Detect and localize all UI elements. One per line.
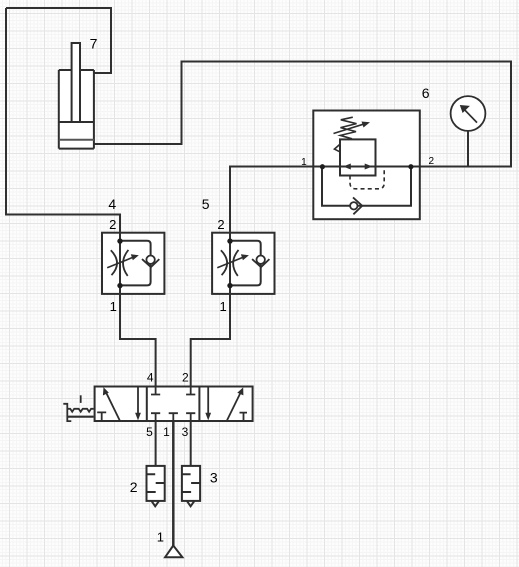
5/3 right position: blocked port T (240, 413, 248, 421)
junction node at regulator port 1 side (320, 164, 325, 169)
silencer U2 (147, 466, 165, 506)
5/3 left position: diagonal flow arrow (103, 387, 120, 420)
5/3 centre position port stub 1 (169, 413, 178, 421)
wire: left frame down to flow valve 4 port 2, through valve 4 to 5/3 valve port 4 (6, 8, 156, 387)
valve 4 adjustment arrow (107, 254, 139, 268)
svg-text:2: 2 (429, 156, 435, 167)
wire: cylinder 7 bottom port right and up, along top to right frame, down to regulator port 2 (94, 62, 511, 167)
svg-text:1: 1 (157, 530, 164, 545)
wire: cylinder 7 top port to top frame corner (6, 8, 111, 73)
wire: regulator port 1 left to flow valve 5 port 2, through valve 5 to 5/3 valve port 2 (191, 167, 322, 388)
svg-text:2: 2 (182, 371, 189, 385)
svg-text:3: 3 (210, 469, 218, 485)
regulator adjustment arrow (334, 122, 371, 134)
compressed-air source U1 (165, 546, 182, 558)
svg-text:5: 5 (146, 425, 153, 439)
pressure gauge (451, 96, 486, 131)
wire: 5/3 valve port 5 down to silencer 2 (155, 421, 157, 466)
regulator vent triangle (334, 144, 339, 151)
svg-text:3: 3 (182, 425, 189, 439)
junction node valve 4 bottom (117, 283, 122, 288)
5/3 valve detent with pin (63, 395, 93, 421)
svg-text:4: 4 (108, 196, 116, 212)
svg-text:1: 1 (301, 157, 307, 168)
wire: 5/3 valve port 1 down to compressed-air source 1 (172, 421, 175, 546)
5/3 right position: down flow arrow (205, 387, 211, 420)
svg-text:6: 6 (422, 85, 430, 101)
junction node at regulator port 2 side (408, 164, 413, 169)
regulator adjustment spring (340, 117, 356, 139)
5/3 right position: diagonal flow arrow (227, 387, 243, 420)
svg-text:2: 2 (217, 217, 224, 232)
one-way flow control valve U4 (102, 232, 164, 294)
regulator pilot line (dashed) (350, 169, 384, 189)
regulator check valve (350, 197, 362, 214)
regulator bypass line (322, 167, 411, 206)
svg-text:1: 1 (219, 299, 226, 314)
pressure regulator U6 (enclosure box) (313, 111, 420, 220)
valve 5 adjustment arrow (217, 254, 249, 268)
cylinder U7 (single-acting cylinder, rod up) (59, 43, 94, 149)
svg-text:1: 1 (163, 425, 170, 439)
junction node valve 4 top (117, 238, 122, 243)
junction node valve 5 bottom (227, 283, 232, 288)
5/3 centre position port stub 2 (186, 387, 195, 395)
one-way flow control valve U5 (212, 232, 274, 294)
svg-text:7: 7 (90, 35, 98, 51)
svg-text:1: 1 (110, 299, 117, 314)
svg-text:2: 2 (130, 479, 138, 495)
5/3 left position: down flow arrow (135, 387, 141, 420)
5/3 left position: blocked port T (97, 412, 106, 421)
5/3 centre position port stub 5 (151, 413, 160, 421)
wire: 5/3 valve port 3 down to silencer 3 (190, 421, 192, 466)
valve 5 throttle arcs (221, 250, 239, 276)
regulator double flow arrow (343, 164, 373, 170)
valve 4 throttle arcs (111, 250, 129, 276)
svg-text:5: 5 (202, 196, 210, 212)
5/3 centre position port stub 4 (151, 387, 160, 395)
regulator flow line port1-port2 (313, 166, 420, 168)
junction node valve 5 top (227, 238, 232, 243)
svg-text:2: 2 (109, 217, 116, 232)
svg-text:4: 4 (147, 371, 154, 385)
5/3-way directional valve body (95, 387, 253, 422)
silencer U3 (182, 466, 200, 506)
wire: pressure gauge stem (467, 131, 469, 167)
valve 4 check valve (142, 256, 159, 268)
5/3 centre position port stub 3 (186, 413, 195, 421)
regulator valve body (340, 139, 376, 175)
valve 5 check valve (252, 256, 269, 268)
